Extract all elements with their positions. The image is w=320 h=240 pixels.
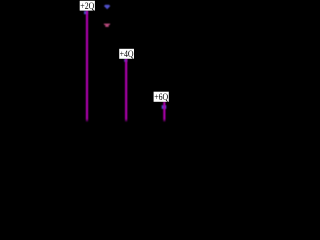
label +2Q <box>80 1 95 12</box>
node bead on line 3 <box>162 105 167 109</box>
wire line for charge +4Q <box>125 59 127 122</box>
wire line for charge +6Q <box>163 102 165 122</box>
blue gem icon <box>104 5 110 10</box>
node bead on line 2 <box>124 59 127 62</box>
svg-text:+4Q: +4Q <box>120 49 134 60</box>
label +6Q <box>154 92 169 103</box>
svg-text:+2Q: +2Q <box>80 1 94 12</box>
svg-text:+6Q: +6Q <box>154 92 168 103</box>
label +4Q <box>119 49 134 60</box>
wire line for charge +2Q <box>86 11 88 122</box>
pink anvil icon <box>104 24 111 27</box>
node bead on line 1 <box>84 11 88 14</box>
